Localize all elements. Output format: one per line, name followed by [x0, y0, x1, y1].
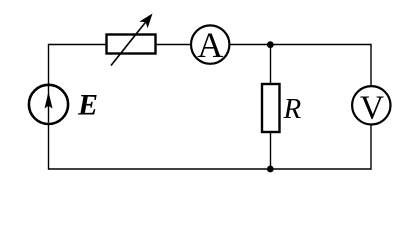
resistor R	[262, 84, 280, 132]
wire left branch lower	[48, 124, 50, 170]
wire right branch lower	[370, 125, 372, 170]
ammeter A	[191, 25, 229, 65]
wire resistor R to bottom junction	[270, 132, 272, 169]
svg-text:R: R	[283, 93, 302, 125]
wire left branch upper	[48, 44, 50, 85]
wire right branch upper	[370, 44, 372, 86]
wire top-left horizontal segment	[49, 44, 107, 46]
voltmeter V	[352, 86, 390, 126]
svg-text:A: A	[197, 25, 223, 65]
svg-text:E: E	[77, 89, 98, 122]
wire ammeter to top-right corner	[231, 44, 372, 46]
node bottom junction	[267, 166, 274, 173]
svg-text:V: V	[360, 89, 384, 126]
wire bottom horizontal	[49, 168, 372, 170]
rheostat (variable resistor)	[107, 14, 156, 66]
wire rheostat to ammeter	[156, 44, 190, 46]
wire junction down to resistor R	[270, 45, 272, 85]
node top junction	[267, 41, 274, 48]
current source E (circle with up arrow)	[29, 85, 68, 124]
